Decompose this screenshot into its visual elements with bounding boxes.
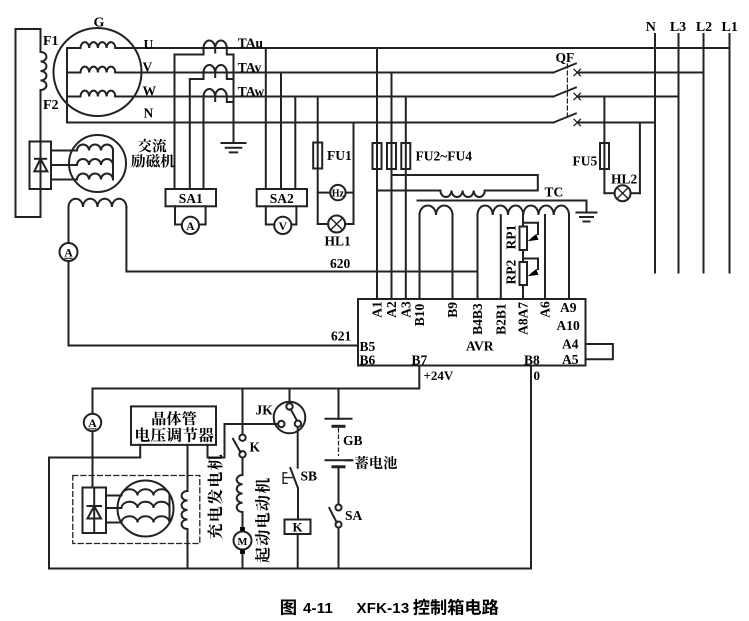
wire 621 (69, 261, 359, 346)
wire W after QF to L3 (577, 96, 679, 98)
svg-text:M: M (238, 537, 248, 548)
wire A1 vertical (U tap) (376, 48, 378, 299)
starter motor label (vertical) (255, 478, 270, 563)
svg-text:F1: F1 (43, 34, 59, 49)
svg-text:N: N (646, 20, 656, 35)
svg-text:620: 620 (330, 256, 351, 271)
svg-text:A4: A4 (562, 337, 579, 352)
svg-text:TAv: TAv (238, 60, 262, 75)
svg-text:K: K (292, 520, 303, 535)
svg-text:B9: B9 (445, 302, 460, 318)
lamp HL2 (604, 192, 614, 194)
wire rectifier-generator links (106, 495, 122, 497)
winding G phase V (67, 72, 81, 74)
svg-text:XFK-13: XFK-13 (357, 600, 410, 617)
QF contact cross (574, 119, 580, 125)
wire TAw secondary leads (203, 97, 205, 190)
starter motor series winding (237, 475, 243, 512)
rectifier (exciter) box (30, 142, 52, 190)
wire SB to relay K (297, 488, 299, 519)
QF linkage (dashed) (566, 64, 568, 119)
selector switch SA1 box (166, 189, 217, 206)
diode (exciter rectifier) (40, 142, 42, 190)
svg-text:L3: L3 (670, 20, 686, 35)
wire Hz/HL1 to N (353, 123, 355, 225)
lamp HL1 (318, 223, 328, 225)
ammeter A (charging) (84, 414, 101, 431)
circuit breaker QF blade V (554, 64, 576, 73)
wire A8A7 (through RP1/RP2) (522, 215, 524, 299)
wire regulator left lead (49, 445, 140, 569)
svg-text:4-11: 4-11 (303, 600, 333, 617)
svg-text:TAu: TAu (238, 35, 264, 50)
svg-text:JK: JK (256, 403, 274, 418)
wire TAv secondary leads (190, 73, 204, 190)
voltage regulator box (131, 406, 216, 445)
fuse FU3 (387, 143, 396, 169)
generator G (54, 28, 142, 116)
svg-text:A10: A10 (557, 318, 580, 333)
svg-text:W: W (143, 84, 157, 99)
current transformer TAv (204, 65, 227, 73)
wire N after QF to N column (577, 122, 655, 124)
svg-text:A5: A5 (562, 352, 579, 367)
fuse FU5 (600, 143, 609, 169)
wire B4B3 (477, 215, 479, 299)
exciter winding row 3 (77, 174, 113, 180)
wire rectifier to loop bottom (40, 189, 42, 217)
wire W line (115, 96, 553, 98)
ammeter A (field) (60, 243, 78, 261)
wire SA2 to voltmeter (266, 206, 274, 224)
charging generator label (vertical) (207, 455, 222, 539)
TC core / screen line (418, 201, 587, 213)
svg-text:+24V: +24V (424, 368, 454, 383)
charging generator winding rows (122, 489, 170, 495)
wire B8 0 (530, 366, 532, 569)
wire TAu secondary leads (175, 48, 204, 189)
svg-text:B10: B10 (412, 304, 427, 327)
wire regulator field lead (187, 445, 189, 491)
circuit breaker QF blade N (554, 114, 576, 123)
wire L1 column (729, 34, 731, 273)
svg-text:AVR: AVR (466, 339, 494, 354)
svg-text:B8: B8 (524, 353, 540, 368)
svg-text:V: V (279, 221, 288, 233)
battery GB (326, 418, 352, 420)
fuse FU2 (373, 143, 382, 169)
svg-text:F2: F2 (43, 98, 59, 113)
ammeter A (SA1) (182, 217, 199, 234)
svg-text:A6: A6 (538, 301, 553, 318)
svg-text:SA1: SA1 (179, 191, 203, 206)
svg-text:TC: TC (545, 185, 564, 200)
wire bottom rail (49, 568, 531, 570)
starter motor M (240, 527, 245, 532)
wire 620 (126, 207, 477, 272)
wire field left lead (68, 207, 70, 243)
svg-text:L2: L2 (696, 20, 712, 35)
svg-text:A: A (186, 221, 195, 233)
AVR side tab (586, 344, 613, 359)
exciter field winding (69, 199, 127, 207)
svg-text:U: U (144, 37, 154, 52)
wire regulator to JK contact (208, 424, 279, 458)
svg-text:SA2: SA2 (270, 191, 294, 206)
wire G star bus (66, 48, 68, 123)
svg-text:V: V (143, 60, 153, 75)
wire TC primary feed (U) (377, 190, 440, 192)
svg-text:HL1: HL1 (325, 234, 352, 249)
switch SA (336, 505, 342, 511)
svg-text:A2: A2 (384, 301, 399, 318)
wire B7 +24V (93, 366, 420, 389)
svg-text:FU1: FU1 (327, 148, 352, 163)
pushbutton SB (290, 468, 298, 488)
transformer TC primary winding (440, 191, 484, 198)
wire K to starter coil (242, 458, 244, 476)
wire rail to ammeter (92, 389, 94, 414)
svg-text:A9: A9 (560, 300, 577, 315)
wire battery to SA (338, 468, 340, 504)
fuse FU1 (313, 143, 322, 169)
wire L3 column (678, 34, 680, 273)
selector switch SA2 box (257, 189, 307, 206)
svg-text:621: 621 (331, 329, 352, 344)
svg-text:N: N (144, 106, 154, 121)
svg-text:SB: SB (301, 469, 318, 484)
diode (charging rectifier) (93, 488, 95, 534)
svg-text:TAw: TAw (238, 84, 265, 99)
charging generator field winding (182, 491, 188, 529)
wire V after QF to L2 (577, 72, 704, 74)
wire A3 vertical (W tap) (405, 97, 407, 300)
AVR box (358, 299, 586, 366)
wire A9 (568, 215, 570, 299)
svg-text:A8A7: A8A7 (516, 302, 531, 335)
current transformer TAw (204, 89, 227, 97)
ground (TC core) (577, 212, 597, 214)
wire N line (67, 122, 554, 124)
battery label (xudianchi) (346, 459, 353, 461)
figure caption (281, 599, 499, 617)
svg-text:FU5: FU5 (573, 154, 598, 169)
svg-text:B2B1: B2B1 (493, 303, 508, 335)
potentiometer RP1 (520, 227, 528, 251)
relay coil K box (285, 520, 311, 535)
svg-text:G: G (94, 16, 105, 31)
wire FU1 branch from W (317, 97, 319, 143)
wire L2 column (703, 34, 705, 273)
svg-text:B4B3: B4B3 (470, 303, 485, 335)
svg-text:QF: QF (556, 50, 575, 65)
wire V line (115, 72, 553, 74)
exciter winding row 2 (77, 159, 113, 165)
wire N column (654, 34, 656, 273)
AC exciter label (jiaoliu lizici) (131, 139, 174, 168)
circuit breaker QF blade W (554, 88, 576, 97)
potentiometer RP2 (520, 262, 528, 285)
wire U line (115, 47, 729, 49)
svg-text:RP1: RP1 (504, 225, 519, 250)
wire B10 (419, 215, 421, 299)
svg-text:SA: SA (345, 508, 363, 523)
ignition switch JK (274, 402, 306, 434)
svg-text:A: A (64, 248, 73, 260)
wire B2B1 (500, 215, 502, 299)
winding G phase U (67, 47, 81, 49)
wire HL2 to N (639, 123, 641, 194)
wire rail to JK (289, 389, 291, 404)
wire B9 (452, 215, 454, 299)
svg-text:RP2: RP2 (504, 260, 519, 285)
wire A2 vertical (V tap) (391, 73, 393, 300)
svg-text:FU2~FU4: FU2~FU4 (416, 149, 473, 164)
exciter winding row 1 (77, 145, 113, 151)
svg-text:L1: L1 (722, 20, 738, 35)
wire SA1 to ammeter (175, 206, 182, 224)
current transformer TAu (204, 40, 227, 48)
wire field loop left/top/bottom (16, 29, 41, 217)
svg-text:GB: GB (343, 433, 363, 448)
regulator label (transistor voltage regulator) (136, 411, 213, 442)
wire TC primary feed (V) (392, 175, 538, 191)
wire JK to SB (297, 427, 299, 468)
wire SA2 taps U/V/W (265, 48, 267, 189)
svg-text:B6: B6 (360, 353, 376, 368)
svg-text:A1: A1 (370, 301, 385, 318)
fuse FU4 (401, 143, 410, 169)
QF contact cross (574, 93, 580, 99)
transformer TC secondary 1 (B10-B9) (420, 206, 453, 216)
wire generator right bus (169, 496, 171, 523)
field winding F1-F2 (40, 29, 42, 52)
winding G phase W (67, 96, 81, 98)
svg-text:A: A (88, 418, 97, 430)
AC exciter machine circle (69, 135, 126, 192)
frequency meter Hz (318, 192, 331, 194)
transformer TC secondary 2 (tapped) (478, 205, 570, 215)
voltmeter V (274, 217, 291, 234)
wire CT common to ground (233, 55, 235, 144)
dashed enclosure (charging generator) (73, 476, 200, 544)
svg-text:Hz: Hz (332, 188, 345, 199)
wire exciter right bus (112, 151, 114, 180)
wire rectifier-exciter links (51, 150, 77, 152)
wire rail to battery (338, 389, 340, 419)
rectifier (charging) box (83, 488, 107, 534)
ground (CT common) (222, 142, 246, 144)
svg-text:K: K (250, 440, 261, 455)
wire rail to K contact (242, 389, 244, 435)
wire A6 (544, 215, 546, 299)
wire FU5 branch (603, 97, 605, 144)
charging generator circle (118, 481, 174, 537)
contact K (starter) (239, 435, 245, 441)
QF contact cross (574, 69, 580, 75)
svg-text:HL2: HL2 (611, 172, 638, 187)
svg-text:0: 0 (534, 368, 541, 383)
